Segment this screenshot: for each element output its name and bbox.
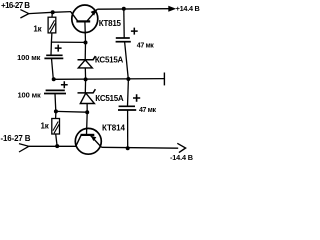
wire C1 bottom lead [52, 58, 54, 79]
node rail (base node, top half) [51, 41, 85, 43]
junction dot (ground rail / C3-C4) [126, 77, 130, 81]
transistor Q1 emitter arrow [91, 9, 97, 16]
junction dot (bottom rail / C4) [126, 146, 130, 150]
zener VD2 triangle [80, 93, 94, 103]
zener VD1 anode lead [84, 68, 86, 79]
zener VD1 triangle [78, 60, 92, 68]
zener VD1 KC515A cathode bar [78, 56, 96, 60]
wire R1 bottom lead down to node [50, 33, 53, 55]
transistor Q1 emitter [87, 9, 97, 21]
zener VD2 anode lead [86, 104, 88, 113]
transistor Q1 base lead [84, 21, 87, 42]
capacitor C2 100 мк plus sign [61, 81, 68, 88]
wire R1 top lead [51, 12, 53, 17]
capacitor C4 47 мк plus sign [133, 94, 140, 102]
svg-text:-16-27 В: -16-27 В [1, 134, 31, 143]
zener VD1 lead from base node [84, 43, 86, 60]
ground rail end bar [163, 73, 165, 86]
junction dot (C2 / R2 / base node bottom) [54, 109, 58, 113]
wire C4 top lead from ground rail [127, 79, 130, 106]
junction dot (VD2 / base node bottom) [85, 110, 89, 114]
transistor Q1 collector [71, 12, 78, 21]
transistor Q2 KT814 circle [75, 128, 101, 154]
transistor Q1 KT815 circle [72, 5, 98, 33]
wire bottom rail right [102, 146, 179, 149]
junction dot (VD1 / ground rail) [84, 77, 88, 81]
input terminal arrow (top left) [20, 10, 28, 18]
transistor Q2 collector [76, 135, 81, 146]
capacitor C4 plates [119, 105, 135, 107]
wire C3 bottom lead to ground rail [125, 42, 129, 79]
svg-text:КТ815: КТ815 [99, 19, 122, 28]
capacitor C3 47 мк plus sign [131, 28, 138, 35]
wire bottom rail left [29, 145, 76, 147]
resistor R2 [52, 119, 60, 135]
transistor Q2 emitter arrow (points to bar, PNP) [91, 136, 97, 141]
output arrow +14.4 (filled) [168, 6, 176, 12]
zener VD2 KC515A cathode lead from ground rail [84, 79, 86, 93]
junction dot (bottom rail / R2) [55, 144, 59, 148]
svg-text:1к: 1к [33, 25, 42, 34]
transistor Q2 emitter [91, 136, 102, 148]
svg-text:+14.4 В: +14.4 В [176, 4, 200, 13]
junction dot (rail / R1) [51, 10, 55, 14]
svg-text:КС515А: КС515А [95, 56, 124, 65]
wire output rail +14.4 [97, 8, 169, 11]
svg-text:47 мк: 47 мк [139, 107, 156, 114]
junction dot (C1/C2/ground rail) [52, 77, 56, 81]
node rail (base node, bottom half) [56, 110, 87, 113]
junction dot (output rail / C3) [122, 7, 126, 11]
transistor Q2 base bar [81, 134, 95, 136]
ground rail (middle) [54, 78, 165, 81]
input terminal arrow (bottom left) [19, 144, 29, 152]
wire top rail left [29, 12, 71, 14]
capacitor C3 plates [116, 37, 130, 39]
capacitor C1 plates [46, 54, 62, 56]
wire R2 top lead [55, 111, 57, 118]
transistor Q2 base lead [86, 112, 89, 135]
resistor R1 [48, 17, 56, 33]
junction dot (base node / zener VD1) [84, 41, 88, 45]
svg-text:КС515А: КС515А [95, 94, 124, 103]
capacitor C1 100 мк plus sign [55, 45, 62, 52]
svg-text:1к: 1к [41, 121, 50, 130]
svg-text:-14.4 В: -14.4 В [170, 153, 193, 162]
svg-text:47 мк: 47 мк [137, 43, 154, 50]
wire C4 bottom lead [127, 110, 129, 148]
svg-text:100 мк: 100 мк [17, 53, 41, 62]
capacitor C2 plates [46, 89, 65, 91]
svg-text:100 мк: 100 мк [18, 91, 42, 100]
svg-text:+16-27 В: +16-27 В [1, 1, 30, 10]
svg-text:КТ814: КТ814 [102, 124, 125, 133]
transistor Q1 base bar [76, 20, 90, 22]
wire C2 bottom lead [54, 94, 57, 112]
wire R2 bottom lead [56, 134, 57, 146]
zener VD2 cathode bar [78, 89, 96, 93]
output arrow -14.4 (open) [177, 143, 185, 152]
wire C3 top lead [123, 9, 125, 38]
